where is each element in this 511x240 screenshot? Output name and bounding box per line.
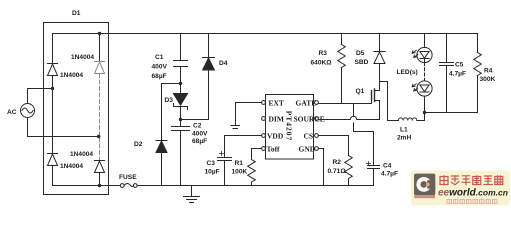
svg-text:C1: C1 (155, 54, 164, 61)
svg-text:10µF: 10µF (205, 169, 220, 176)
capacitor C2 (172, 120, 190, 186)
node AC right tap (97, 135, 100, 138)
zener D3 (173, 84, 187, 120)
svg-text:1N4004: 1N4004 (70, 151, 93, 158)
wire gate branch to C4 (354, 104, 374, 166)
svg-text:C3: C3 (207, 160, 216, 167)
svg-text:AC: AC (7, 109, 17, 116)
label D4 (219, 60, 228, 67)
label 1N4004 lower-right (70, 151, 93, 158)
wire top rail (53, 33, 478, 35)
wire bottom rail (53, 185, 374, 187)
svg-text:GND: GND (299, 145, 316, 154)
wire AC top (28, 89, 53, 104)
svg-text:VDD: VDD (267, 132, 284, 141)
svg-text:4.7µF: 4.7µF (449, 71, 466, 78)
svg-text:640KΩ: 640KΩ (311, 60, 333, 67)
label L1 (397, 127, 412, 142)
wire bridge right column lower (99, 173, 101, 186)
label 1N4004 upper-left (60, 72, 83, 79)
capacitor C4 (367, 162, 380, 186)
svg-text:68µF: 68µF (192, 138, 207, 145)
LED1 arrows (412, 50, 418, 57)
capacitor C5 (440, 34, 454, 113)
IC pin GND (299, 145, 319, 154)
svg-text:1N4004: 1N4004 (60, 72, 83, 79)
svg-text:eeworld.com.cn: eeworld.com.cn (438, 188, 508, 199)
capacitor C3 (218, 136, 232, 186)
label Q1 (356, 88, 365, 95)
LED2 arrows (412, 84, 418, 91)
label C5 (449, 62, 466, 78)
diode 1N4004 lower-left (48, 154, 58, 166)
svg-text:100K: 100K (232, 169, 248, 176)
wire Q1 source down (379, 101, 381, 120)
svg-text:CS: CS (304, 132, 314, 141)
svg-text:DIM: DIM (269, 115, 284, 124)
IC pin GATE (296, 99, 319, 108)
svg-text:Q1: Q1 (356, 88, 365, 95)
label C1 (152, 54, 168, 80)
label 1N4004 lower-left (60, 163, 83, 170)
svg-text:D1: D1 (72, 10, 81, 17)
wire LED dashed (424, 63, 426, 81)
resistor R1 (248, 149, 256, 186)
label FUSE (119, 174, 137, 181)
LED2 (417, 81, 432, 121)
svg-text:LED(s): LED(s) (397, 69, 418, 76)
op IC U1 PT4207 box (266, 95, 314, 160)
svg-text:C4: C4 (383, 163, 392, 170)
watermark chinese title (440, 175, 503, 185)
transistor Q1 (372, 89, 380, 102)
IC pin DIM (262, 115, 284, 124)
svg-text:R3: R3 (319, 50, 328, 57)
svg-text:68µF: 68µF (152, 73, 167, 80)
svg-text:FUSE: FUSE (119, 174, 137, 181)
node D3 bottom junction (179, 118, 182, 121)
wire drain tap to L1 (380, 82, 399, 121)
wire bridge left column (52, 34, 54, 186)
wire Toff to R1 (252, 148, 262, 150)
wire GND pin down (318, 149, 323, 186)
svg-text:1N4004: 1N4004 (60, 163, 83, 170)
label C3 (205, 160, 220, 176)
wire VDD to C3 (225, 135, 262, 137)
resistor R3 (338, 34, 346, 104)
svg-text:GATE: GATE (296, 99, 317, 108)
fuse FUSE (120, 184, 137, 188)
svg-text:0.71Ω: 0.71Ω (328, 168, 347, 175)
AC source (21, 104, 35, 118)
svg-text:SBD: SBD (355, 59, 369, 66)
label LEDs (397, 69, 418, 76)
node AC left tap (51, 87, 54, 90)
diode 1N4004 upper-right (gray) (95, 62, 105, 74)
ground main (184, 186, 200, 203)
svg-text:PT4207: PT4207 (285, 111, 294, 142)
svg-text:400V: 400V (152, 64, 168, 71)
capacitor C1 (174, 34, 188, 84)
label R1 (232, 160, 248, 176)
inductor L1 (399, 118, 425, 121)
svg-text:D4: D4 (219, 60, 228, 67)
svg-text:R4: R4 (484, 68, 493, 75)
IC pin CS (304, 132, 319, 141)
label R4 (480, 68, 496, 84)
IC pin EXT (262, 99, 284, 108)
svg-text:D2: D2 (134, 141, 143, 148)
svg-text:D3: D3 (165, 97, 174, 104)
label PT4207 (285, 111, 294, 142)
wire CS to R2 (318, 136, 348, 156)
watermark url (438, 188, 508, 199)
svg-text:D5: D5 (356, 50, 365, 57)
node bridge bottom junction (98, 184, 101, 187)
resistor R4 (474, 34, 482, 113)
svg-text:L1: L1 (400, 127, 408, 134)
IC pin Toff (262, 145, 280, 154)
watermark slogan (447, 200, 497, 204)
label AC (7, 109, 17, 116)
wire bridge right column upper (99, 34, 101, 62)
IC pin VDD (262, 132, 284, 141)
node bridge top junction (98, 32, 101, 35)
label D1 (72, 10, 81, 17)
svg-text:300K: 300K (480, 76, 496, 83)
svg-text:Toff: Toff (267, 145, 281, 154)
diode D5 (374, 34, 385, 91)
diode 1N4004 lower-right (95, 161, 105, 173)
wire bridge right column dashed (99, 74, 101, 161)
diode D2 (156, 141, 167, 186)
wire output bottom (425, 112, 478, 114)
svg-text:4.7µF: 4.7µF (381, 171, 398, 178)
wire EXT to small ground (236, 103, 262, 126)
watermark eeworld (411, 171, 510, 206)
svg-text:EXT: EXT (269, 99, 284, 108)
wire AC bottom (28, 118, 99, 137)
svg-text:C2: C2 (193, 123, 202, 130)
svg-text:C5: C5 (455, 62, 464, 69)
label D3 (165, 97, 174, 104)
diode D4 (203, 34, 215, 120)
LED1 (417, 34, 432, 63)
svg-text:R1: R1 (235, 160, 244, 167)
bridge D1 box (44, 23, 109, 195)
diode 1N4004 upper-left (48, 64, 58, 76)
wire GATE to Q1 gate (318, 100, 371, 104)
label R3 (311, 50, 333, 67)
node C1 bottom junction (179, 82, 182, 85)
wire SOURCE pin with hop (318, 116, 379, 119)
label 1N4004 upper-right (71, 54, 94, 61)
label D5 (355, 50, 369, 66)
svg-text:2mH: 2mH (397, 135, 412, 142)
svg-text:1N4004: 1N4004 (71, 54, 94, 61)
node LED bottom junction (423, 111, 426, 114)
label C4 (381, 163, 398, 178)
svg-text:R2: R2 (333, 159, 342, 166)
label D2 (134, 141, 143, 148)
wire C1 to D2 branch (162, 84, 181, 141)
label C2 (192, 123, 208, 146)
svg-text:400V: 400V (192, 131, 208, 138)
label R2 (328, 159, 347, 175)
IC pin SOURCE (294, 115, 325, 124)
resistor R2 (345, 156, 353, 186)
wire D3 node to D4 (181, 119, 209, 121)
ground EXT small (231, 126, 240, 129)
